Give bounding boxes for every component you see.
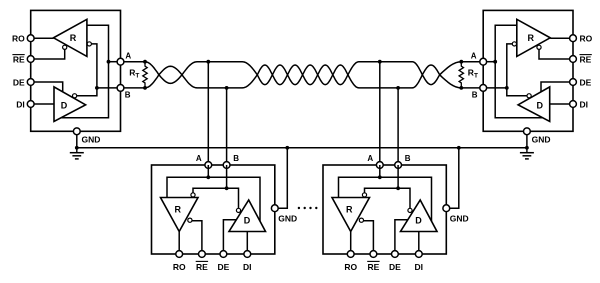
bubble receiver input B of U4 (right) (512, 42, 516, 46)
junction node A inside U2 (middle-left) (206, 175, 210, 179)
svg-text:RE: RE (196, 262, 208, 272)
wire GND pin to ground rail of U3 (middle-right) (450, 148, 459, 208)
svg-text:RO: RO (344, 262, 357, 272)
wire RE to receiver enable of U1 (left) (31, 49, 65, 59)
terminal A of U4 (right) (480, 58, 487, 65)
svg-text:D: D (61, 100, 68, 110)
wire receiver enable to RE of U2 (middle-left) (192, 221, 202, 254)
wire receiver enable to RE of U3 (middle-right) (364, 221, 374, 254)
bubble driver output B of U3 (middle-right) (408, 208, 412, 212)
junction GND rail tap of U2 (middle-left) (285, 146, 289, 150)
wire node A to driver output A of U2 (middle-left) (208, 177, 260, 221)
svg-text:RT: RT (129, 67, 139, 79)
wire receiver input A of U4 (right) (495, 25, 517, 62)
ellipsis dots (more transceivers) (298, 207, 300, 209)
junction RT left bottom node B (143, 86, 147, 90)
wire DE to driver enable of U4 (right) (541, 82, 573, 92)
pin RO of U4 (right) (570, 35, 577, 42)
pin RO of U3 (middle-right) (347, 251, 354, 258)
svg-text:DE: DE (580, 77, 592, 87)
bubble driver output B of U4 (right) (527, 94, 531, 98)
svg-text:GND: GND (450, 214, 469, 224)
svg-text:GND: GND (278, 214, 297, 224)
stub wire bus B to terminal B of U3 (middle-right) (397, 88, 399, 165)
svg-text:A: A (196, 154, 202, 163)
svg-text:R: R (175, 205, 182, 215)
svg-text:GND: GND (82, 135, 101, 145)
junction GND rail tap of U3 (middle-right) (457, 146, 461, 150)
wire node A to terminal A of U4 (right) (483, 61, 495, 63)
terminal B of U1 (left) (117, 85, 124, 92)
svg-text:B: B (472, 90, 478, 99)
wire node B to driver output B of U3 (middle-right) (398, 188, 410, 208)
svg-text:D: D (415, 216, 422, 226)
wire DE to driver enable of U2 (middle-left) (223, 220, 236, 254)
wire DI to driver input of U2 (middle-left) (246, 232, 248, 255)
wire RO to receiver output of U1 (left) (31, 37, 54, 39)
junction RT right bottom node B (459, 86, 463, 90)
driver D of U4 (right) (518, 87, 550, 122)
junction node B inside U4 (right) (505, 86, 509, 90)
wire GND pin to ground rail of U1 (left) (76, 135, 78, 148)
svg-text:DI: DI (243, 262, 252, 272)
wire DI to driver input of U4 (right) (550, 103, 573, 105)
pin RE of U2 (middle-left) (199, 251, 206, 258)
wire DI to driver input of U1 (left) (31, 103, 54, 105)
wire DE to driver enable of U1 (left) (31, 82, 63, 92)
svg-text:B: B (125, 90, 131, 99)
wire GND pin to ground rail of U2 (middle-left) (278, 148, 287, 208)
svg-text:D: D (244, 216, 251, 226)
ground rail wire (77, 147, 527, 149)
svg-text:B: B (233, 154, 239, 163)
svg-text:DE: DE (13, 77, 25, 87)
wire receiver input B of U1 (left) (91, 44, 97, 88)
wire node A to receiver input A of U2 (middle-left) (167, 177, 208, 197)
driver D of U1 (left) (54, 87, 86, 122)
svg-text:RO: RO (580, 34, 593, 44)
pin DI of U4 (right) (570, 101, 577, 108)
transceiver U1 (left) package outline (31, 10, 121, 131)
svg-text:DI: DI (580, 99, 589, 109)
junction GND rail at U1 (left) (75, 146, 79, 150)
wire driver output B of U4 (right) (507, 88, 527, 96)
receiver R of U4 (right) (517, 19, 550, 56)
pin DE of U3 (middle-right) (392, 251, 399, 258)
pin GND of U3 (middle-right) (443, 205, 450, 212)
svg-text:R: R (527, 33, 534, 43)
wire receiver output to RO of U2 (middle-left) (178, 232, 180, 255)
wire receiver output to RO of U3 (middle-right) (350, 232, 352, 255)
svg-text:DE: DE (217, 262, 229, 272)
transceiver U3 (middle-right) package outline (323, 165, 446, 254)
wire driver output B of U1 (left) (77, 88, 97, 96)
wire RE to receiver enable of U4 (right) (539, 49, 573, 59)
terminal A of U1 (left) (117, 58, 124, 65)
bubble receiver enable of U1 (left) (63, 45, 67, 49)
stub wire bus B to terminal B of U2 (middle-left) (226, 88, 228, 165)
svg-text:DE: DE (389, 262, 401, 272)
overline of RE label of U3 (middle-right) (367, 260, 379, 262)
junction node A inside U4 (right) (493, 60, 497, 64)
bubble receiver input B of U2 (middle-left) (191, 193, 195, 197)
wire terminal A to node A of U2 (middle-left) (207, 165, 209, 177)
svg-text:R: R (70, 33, 77, 43)
terminal B of U2 (middle-left) (223, 162, 230, 169)
terminal A of U3 (middle-right) (376, 162, 383, 169)
svg-text:R: R (346, 205, 353, 215)
wire DE to driver enable of U3 (middle-right) (395, 220, 408, 254)
pin GND of U2 (middle-left) (271, 205, 278, 212)
terminal A of U2 (middle-left) (205, 162, 212, 169)
terminal B of U3 (middle-right) (395, 162, 402, 169)
svg-text:RE: RE (367, 262, 379, 272)
wire node B to terminal B of U1 (left) (97, 87, 121, 89)
junction RT left top node A (143, 60, 147, 64)
bubble receiver enable of U4 (right) (537, 45, 541, 49)
junction node A inside U3 (middle-right) (378, 175, 382, 179)
pin DE of U1 (left) (27, 79, 34, 86)
svg-text:A: A (125, 52, 131, 61)
wire driver output A of U1 (left) (61, 62, 109, 118)
svg-text:RT: RT (468, 67, 478, 79)
junction bus A tap of U3 (middle-right) (378, 60, 382, 64)
pin GND of U4 (right) (524, 128, 531, 135)
pin GND of U1 (left) (73, 128, 80, 135)
twisted pair bus wire (lower strand) (121, 62, 484, 88)
wire node A to terminal A of U1 (left) (109, 61, 121, 63)
wire node B to receiver input B of U3 (middle-right) (365, 188, 399, 193)
wire driver output A of U4 (right) (495, 62, 543, 118)
svg-text:A: A (367, 154, 373, 163)
svg-text:D: D (536, 100, 543, 110)
ground symbol at U1 (left) (76, 148, 78, 153)
pin DE of U4 (right) (570, 79, 577, 86)
pin RE of U4 (right) (570, 56, 577, 63)
overline of RE label of U4 (right) (580, 54, 592, 56)
wire receiver input A of U1 (left) (87, 25, 109, 62)
svg-text:RO: RO (12, 34, 25, 44)
pin RE of U1 (left) (27, 56, 34, 63)
junction bus B tap of U2 (middle-left) (225, 86, 229, 90)
wire receiver input B of U4 (right) (507, 44, 513, 88)
driver D of U3 (middle-right) (401, 200, 438, 232)
bubble receiver input B of U3 (middle-right) (362, 193, 366, 197)
junction node B inside U3 (middle-right) (396, 186, 400, 190)
wire RO to receiver output of U4 (right) (550, 37, 573, 39)
receiver R of U2 (middle-left) (161, 198, 199, 232)
junction GND rail at U4 (right) (525, 146, 529, 150)
pin RE of U3 (middle-right) (370, 251, 377, 258)
bubble receiver enable of U2 (middle-left) (188, 218, 192, 222)
wire DI to driver input of U3 (middle-right) (418, 232, 420, 255)
pin RO of U1 (left) (27, 35, 34, 42)
terminal B of U4 (right) (480, 85, 487, 92)
wire node B to receiver input B of U2 (middle-left) (193, 188, 227, 193)
svg-text:B: B (405, 154, 411, 163)
svg-text:DI: DI (415, 262, 424, 272)
wire node A to receiver input A of U3 (middle-right) (339, 177, 380, 197)
bubble receiver input B of U1 (left) (87, 42, 91, 46)
termination resistor RT (left) (143, 62, 147, 88)
ground symbol at U4 (right) (526, 148, 528, 153)
wire node A to driver output A of U3 (middle-right) (380, 177, 432, 221)
svg-text:RE: RE (580, 54, 592, 64)
junction node A inside U1 (left) (107, 60, 111, 64)
pin DI of U3 (middle-right) (415, 251, 422, 258)
junction node B inside U1 (left) (95, 86, 99, 90)
svg-text:A: A (471, 52, 477, 61)
overline of RE label of U1 (left) (12, 54, 24, 56)
wire terminal B to node B of U3 (middle-right) (397, 165, 399, 188)
receiver R of U3 (middle-right) (332, 198, 370, 232)
overline of RE label of U2 (middle-left) (196, 260, 208, 262)
wire terminal A to node A of U3 (middle-right) (379, 165, 381, 177)
pin DI of U1 (left) (27, 101, 34, 108)
junction RT right top node A (459, 60, 463, 64)
wire node B to driver output B of U2 (middle-left) (227, 188, 239, 208)
termination resistor RT (right) (459, 62, 463, 88)
svg-text:DI: DI (16, 99, 25, 109)
junction bus A tap of U2 (middle-left) (206, 60, 210, 64)
stub wire bus A to terminal A of U3 (middle-right) (379, 62, 381, 165)
transceiver U2 (middle-left) package outline (152, 165, 275, 254)
wire terminal B to node B of U2 (middle-left) (226, 165, 228, 188)
pin DE of U2 (middle-left) (220, 251, 227, 258)
pin DI of U2 (middle-left) (244, 251, 251, 258)
bubble receiver enable of U3 (middle-right) (359, 218, 363, 222)
pin RO of U2 (middle-left) (176, 251, 183, 258)
svg-text:RE: RE (13, 54, 25, 64)
driver D of U2 (middle-left) (229, 200, 266, 232)
twisted pair bus wire (upper strand) (121, 62, 484, 88)
svg-text:RO: RO (173, 262, 186, 272)
receiver R of U1 (left) (54, 19, 87, 56)
transceiver U4 (right) package outline (483, 10, 573, 131)
stub wire bus A to terminal A of U2 (middle-left) (207, 62, 209, 165)
junction bus B tap of U3 (middle-right) (396, 86, 400, 90)
svg-text:GND: GND (532, 135, 551, 145)
wire node B to terminal B of U4 (right) (483, 87, 507, 89)
junction node B inside U2 (middle-left) (225, 186, 229, 190)
bubble driver output B of U1 (left) (73, 94, 77, 98)
bubble driver output B of U2 (middle-left) (236, 208, 240, 212)
wire GND pin to ground rail of U4 (right) (526, 135, 528, 148)
